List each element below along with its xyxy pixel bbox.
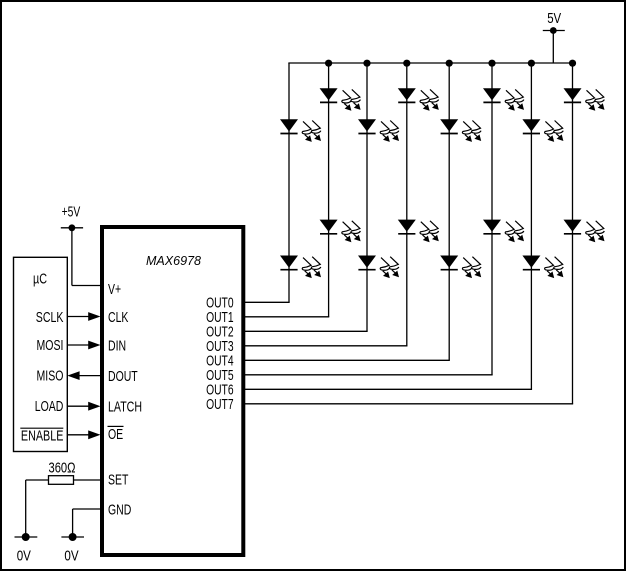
LED column 6 top [483,88,501,100]
bus junction node col2 [325,60,332,67]
LED column 6 bottom [483,220,501,232]
svg-text:µC: µC [33,272,47,288]
bus junction node col7 [528,60,535,67]
wire OUT1 to column 2 [245,316,330,318]
LED column 3 top [358,119,376,131]
bus junction node col5 [446,60,453,67]
svg-text:360Ω: 360Ω [49,461,76,477]
svg-text:MAX6978: MAX6978 [146,253,202,268]
LED column 3 bottom [358,256,376,268]
LED column 8 top [564,88,582,100]
wire OUT5 to column 6 [245,374,493,376]
wire +5V to V+ [71,228,73,286]
resistor R1 360ohm [49,476,74,485]
LED column 4 top [398,88,416,100]
5V supply terminal [543,30,565,32]
microcontroller U2 (µC) box [14,257,68,451]
wire ENABLE to OE [67,434,89,436]
wire LED column 7 [530,63,532,389]
svg-text:ENABLE: ENABLE [21,429,64,445]
svg-text:CLK: CLK [108,310,129,326]
wire GND to ground 2 [73,508,101,510]
light arrows column 6 bottom [505,222,514,235]
svg-text:SCLK: SCLK [36,310,64,326]
svg-text:0V: 0V [64,549,78,565]
svg-text:MISO: MISO [37,369,64,385]
wire SCLK to CLK [67,316,89,318]
LED column 7 top [522,119,540,131]
light arrows column 4 top [420,90,429,103]
ENABLE overline [20,427,63,429]
wire LOAD to LATCH [67,405,89,407]
svg-text:LOAD: LOAD [35,399,64,415]
svg-text:DIN: DIN [108,338,126,354]
wire OUT4 to column 5 [245,359,450,361]
svg-text:OE: OE [108,427,123,443]
wire LED column 2 [328,63,330,317]
light arrows column 3 top [380,121,389,134]
svg-text:DOUT: DOUT [108,369,138,385]
light arrows column 8 bottom [586,222,595,235]
light arrows column 1 bottom [302,258,311,271]
LED anode bus wire [288,62,572,64]
ground terminal 1 (0V) [15,536,38,538]
light arrows column 7 bottom [545,258,554,271]
wire resistor to SET [74,479,101,481]
LED column 1 top [280,119,298,131]
bus junction node col8 [569,60,576,67]
light arrows column 6 top [505,90,514,103]
svg-text:OUT7: OUT7 [206,397,234,413]
LED column 5 bottom [440,256,458,268]
wire OUT3 to column 4 [245,345,408,347]
wire 5V to LED bus [552,31,554,64]
LED column 5 top [440,119,458,131]
wire OUT0 to column 1 [245,301,290,303]
light arrows column 5 top [462,121,471,134]
LED column 7 bottom [522,256,540,268]
LED column 4 bottom [398,220,416,232]
svg-text:V+: V+ [108,282,121,298]
LED column 2 top [320,88,338,100]
light arrows column 2 top [342,90,351,103]
ground terminal 2 (0V) [61,536,84,538]
light arrows column 4 bottom [420,222,429,235]
wire LED column 5 [448,63,450,360]
svg-text:LATCH: LATCH [108,400,142,416]
bus junction node col4 [403,60,410,67]
light arrows column 7 top [545,121,554,134]
svg-text:0V: 0V [17,549,31,565]
light arrows column 8 top [586,90,595,103]
wire LED column 1 [288,63,290,302]
+5V supply terminal [61,227,83,229]
wire MOSI to DIN [67,344,89,346]
svg-text:+5V: +5V [62,205,81,221]
OE overline [108,425,124,427]
wire resistor to ground 1 [25,480,27,537]
svg-text:GND: GND [108,503,131,519]
svg-text:MOSI: MOSI [37,338,64,354]
LED column 8 bottom [564,220,582,232]
wire DOUT to MISO [79,375,101,377]
wire LED column 3 [366,63,368,331]
bus junction node col6 [488,60,495,67]
wire LED column 6 [491,63,493,375]
wire LED column 8 [572,63,574,404]
MAX6978 U1 box [102,227,243,555]
light arrows column 5 bottom [462,258,471,271]
light arrows column 1 top [302,121,311,134]
wire OUT7 to column 8 [245,403,574,405]
svg-text:5V: 5V [547,11,561,27]
wire gnd to resistor [26,479,49,481]
wire OUT6 to column 7 [245,388,533,390]
wire OUT2 to column 3 [245,330,368,332]
bus junction node col3 [363,60,370,67]
LED column 1 bottom [280,256,298,268]
light arrows column 2 bottom [342,222,351,235]
LED column 2 bottom [320,220,338,232]
svg-text:SET: SET [108,473,128,489]
light arrows column 3 bottom [380,258,389,271]
wire LED column 4 [406,63,408,346]
